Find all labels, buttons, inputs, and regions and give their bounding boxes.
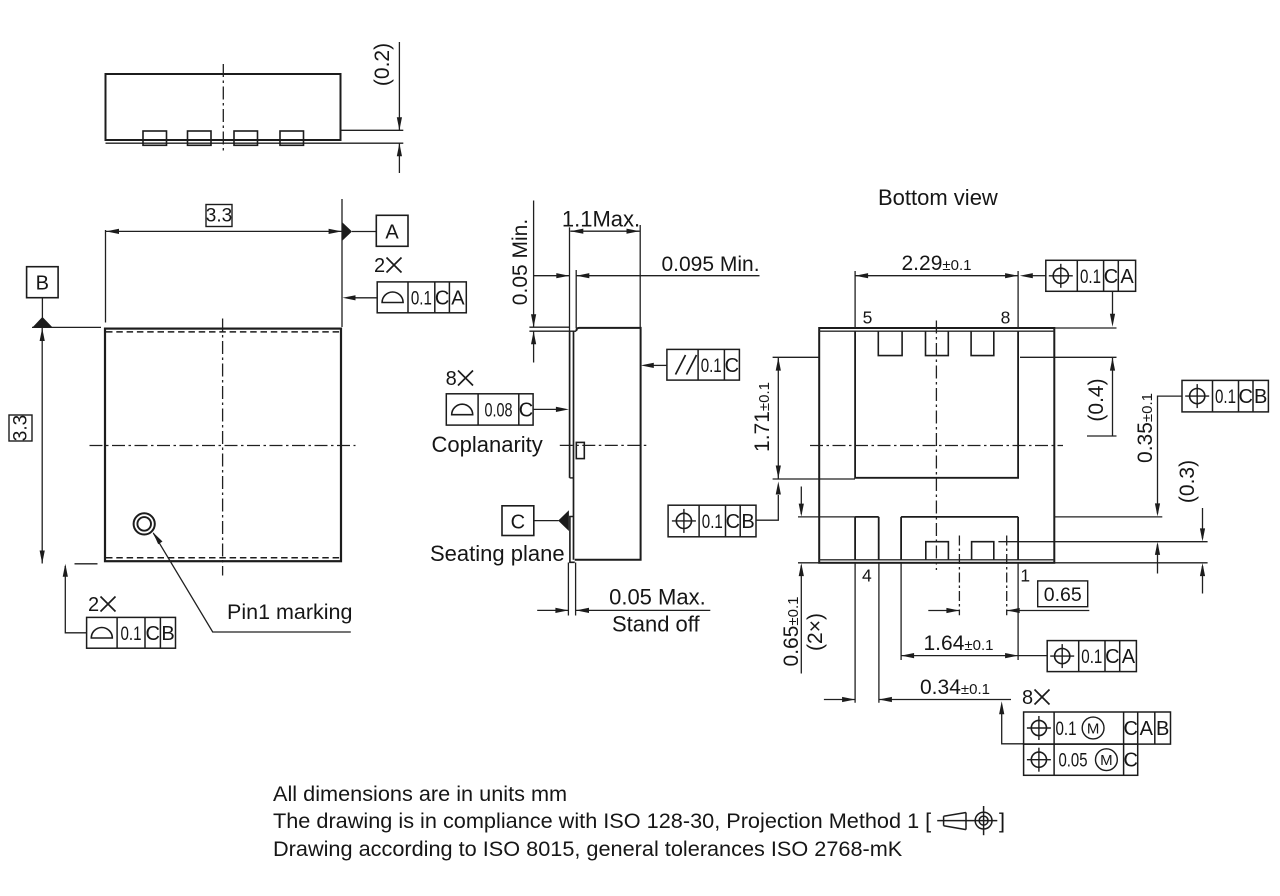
side view strip bottom tick bbox=[570, 477, 574, 479]
dim 0.35 lower arrow bbox=[1157, 545, 1159, 574]
dim 3.3 top: boxed value bbox=[206, 205, 232, 227]
pin1 marking circle outer bbox=[134, 513, 155, 534]
side view gate lead rect bbox=[576, 442, 584, 458]
dim 1.71: extension lines bbox=[773, 356, 819, 358]
svg-text:0.1: 0.1 bbox=[1080, 267, 1101, 288]
extension line body right up bbox=[639, 225, 641, 328]
front view lead 4 bbox=[280, 131, 304, 145]
leader from 8x frames up to 0.34 dim line bbox=[1002, 705, 1024, 744]
svg-text:(0.4): (0.4) bbox=[1085, 378, 1108, 421]
dim 3.3 left: bottom extension line bbox=[75, 563, 98, 565]
dim 3.3 top: right extension line bbox=[341, 199, 343, 327]
dim 1.64: extension lines bbox=[900, 563, 902, 660]
datum A triangle bbox=[343, 223, 353, 241]
svg-text:0.1: 0.1 bbox=[1215, 387, 1236, 408]
svg-text:Stand off: Stand off bbox=[612, 612, 701, 637]
front view vertical centerline bbox=[222, 64, 224, 152]
svg-text:Pin1 marking: Pin1 marking bbox=[227, 600, 352, 624]
svg-text:(0.3): (0.3) bbox=[1176, 460, 1199, 503]
pad top right extension bbox=[1054, 516, 1162, 518]
parallelism frame // 0.1 C bbox=[667, 349, 740, 380]
svg-text:8: 8 bbox=[446, 368, 457, 390]
front view package body bbox=[106, 74, 341, 140]
extension line lead face up bbox=[569, 227, 571, 331]
svg-text:C: C bbox=[145, 623, 159, 645]
position frame 0.1 C B (right) bbox=[1182, 380, 1268, 412]
svg-text:C: C bbox=[519, 400, 533, 422]
svg-text:1: 1 bbox=[1020, 566, 1030, 586]
svg-text:C: C bbox=[1123, 750, 1137, 772]
svg-text:0.1: 0.1 bbox=[411, 288, 432, 309]
feature control frame: profile 0.1 C A bbox=[377, 282, 466, 313]
dim 3.3 top: left extension line bbox=[105, 230, 107, 323]
svg-text:0.095 Min.: 0.095 Min. bbox=[661, 253, 759, 276]
extension line lead top right bbox=[341, 129, 404, 131]
side view body left edge bbox=[573, 331, 575, 560]
dimension (0.2) line lower bbox=[398, 143, 400, 173]
dim 3.3 left: top extension line bbox=[32, 326, 101, 328]
inner top line bbox=[819, 330, 1054, 332]
exposed pad outline bbox=[855, 331, 1018, 478]
svg-text:8: 8 bbox=[1022, 687, 1033, 709]
front view lead 1 bbox=[143, 131, 167, 145]
dim 1.71: dimension line bbox=[777, 358, 779, 479]
svg-text:C: C bbox=[435, 287, 449, 309]
svg-text:C: C bbox=[1238, 386, 1252, 408]
top view hidden edge bottom (dashed) bbox=[106, 557, 340, 559]
svg-text:C: C bbox=[511, 511, 525, 533]
feature control frame: profile 0.08 C bbox=[446, 394, 533, 425]
svg-text:B: B bbox=[36, 273, 49, 295]
svg-text:(2×): (2×) bbox=[804, 613, 827, 651]
front view seating line (lead bottom) bbox=[106, 142, 341, 144]
svg-text:0.05 Max.: 0.05 Max. bbox=[609, 585, 706, 610]
svg-text:A: A bbox=[1122, 646, 1136, 668]
side view body bbox=[575, 328, 641, 560]
svg-text:0.65: 0.65 bbox=[1044, 584, 1082, 606]
position frame 0.1 C A (bottom) bbox=[1047, 641, 1136, 672]
dim 1.64: dimension line bbox=[901, 655, 1047, 657]
svg-text:Drawing according to ISO 8015,: Drawing according to ISO 8015, general t… bbox=[273, 836, 903, 861]
svg-text:3.3: 3.3 bbox=[11, 415, 32, 441]
stand off dimension bbox=[537, 609, 568, 611]
svg-text:A: A bbox=[1140, 718, 1154, 740]
dim 1.1Max line bbox=[570, 230, 639, 232]
top edge right extension bbox=[1054, 327, 1116, 329]
svg-text:M: M bbox=[1087, 721, 1100, 738]
top notch 2 bbox=[926, 331, 949, 355]
leader from top 0.1CA frame left to dim line bbox=[1033, 275, 1046, 277]
svg-text:]: ] bbox=[999, 808, 1005, 833]
source pad notch 1 bbox=[926, 542, 949, 560]
source pad notch 2 bbox=[972, 542, 994, 560]
front view lead 3 bbox=[234, 131, 258, 145]
0.05 Min extension lines bbox=[529, 326, 569, 328]
datum C leader + triangle bbox=[534, 520, 559, 522]
position frame 0.1 C B (side view) bbox=[668, 505, 756, 537]
top view vertical centerline bbox=[222, 319, 224, 576]
svg-text:Bottom view: Bottom view bbox=[878, 185, 998, 210]
svg-text:0.1: 0.1 bbox=[1081, 647, 1102, 668]
top view hidden edge top (dashed) bbox=[106, 331, 340, 333]
leader from side 0.1CB frame up to pad bottom ext bbox=[756, 495, 778, 520]
svg-text:The drawing is in compliance w: The drawing is in compliance with ISO 12… bbox=[273, 808, 931, 833]
leader from 2x frame to right edge extension bbox=[355, 297, 377, 299]
bottom view vertical centerline bbox=[935, 321, 937, 571]
dim 0.095 Min bbox=[534, 275, 569, 277]
projection symbol cone bbox=[937, 806, 997, 835]
lead centerline pin1 bbox=[1006, 536, 1008, 616]
dim 0.05 Min vertical bbox=[533, 201, 535, 328]
datum C box bbox=[502, 506, 534, 536]
dim 0.65 (2x): arrows bbox=[800, 487, 802, 515]
position frame 0.1 C A (top) bbox=[1046, 260, 1136, 291]
svg-text:C: C bbox=[1105, 646, 1119, 668]
svg-text:4: 4 bbox=[862, 566, 872, 586]
dim 0.34: extension lines bbox=[854, 563, 856, 703]
extension line lead bottom right bbox=[341, 142, 404, 144]
leader from top 0.1CA frame down to top edge ext bbox=[1112, 291, 1114, 314]
svg-text:2: 2 bbox=[374, 255, 385, 277]
svg-text:C: C bbox=[726, 511, 740, 533]
side view bottom lead bbox=[570, 517, 575, 563]
svg-text:M: M bbox=[1100, 752, 1113, 769]
leader from // frame to body right edge bbox=[653, 364, 667, 366]
top notch 3 bbox=[971, 331, 994, 355]
side view lead strip outer face bbox=[569, 331, 571, 478]
svg-text:C: C bbox=[1123, 718, 1137, 740]
svg-text:0.05: 0.05 bbox=[1059, 751, 1088, 772]
dimension (0.2) line upper bbox=[398, 42, 400, 130]
dim 0.34: dimension line bbox=[824, 699, 855, 701]
dim (0.4) bbox=[1112, 358, 1114, 436]
extension line body left up bbox=[575, 270, 577, 328]
svg-text:B: B bbox=[161, 623, 174, 645]
pin1 leader line bbox=[153, 533, 350, 632]
leader from 0.08 frame to lead face bbox=[533, 408, 556, 410]
svg-text:0.05 Min.: 0.05 Min. bbox=[509, 219, 532, 305]
bottom edge right extension bbox=[1054, 562, 1207, 564]
datum B box bbox=[27, 267, 58, 298]
svg-text:0.1: 0.1 bbox=[1056, 719, 1077, 740]
svg-text:Seating plane: Seating plane bbox=[430, 541, 565, 566]
svg-text:B: B bbox=[1156, 718, 1169, 740]
stand off extension lines bbox=[567, 563, 569, 616]
dim 0.65 (2x) left: extension lines bbox=[798, 516, 855, 518]
svg-text:(0.2): (0.2) bbox=[371, 43, 394, 86]
svg-text:B: B bbox=[741, 511, 754, 533]
svg-text:Coplanarity: Coplanarity bbox=[432, 432, 543, 457]
notch top right extension bbox=[998, 541, 1207, 543]
bottom view outline bbox=[819, 328, 1054, 563]
svg-text:All dimensions are in units mm: All dimensions are in units mm bbox=[273, 781, 567, 806]
pin1 marking circle inner bbox=[137, 517, 151, 531]
dim (0.3) bbox=[1202, 508, 1204, 539]
inner bottom line bbox=[819, 559, 1054, 561]
svg-text:0.1: 0.1 bbox=[702, 512, 723, 533]
dim 0.65 boxed value bbox=[1038, 581, 1088, 607]
top notch 1 bbox=[878, 331, 902, 355]
side view horizontal centerline bbox=[560, 444, 649, 446]
svg-text:2: 2 bbox=[88, 594, 99, 616]
svg-text:3.3: 3.3 bbox=[206, 206, 232, 227]
position frame 0.1(M) CAB bbox=[1024, 712, 1171, 744]
side view strip top tick bbox=[570, 330, 577, 332]
svg-text:1.1Max.: 1.1Max. bbox=[562, 207, 640, 232]
datum A box bbox=[376, 215, 408, 246]
svg-text:0.08: 0.08 bbox=[485, 401, 513, 422]
svg-text:5: 5 bbox=[863, 308, 873, 328]
dim 3.3 top: dimension line bbox=[106, 230, 342, 232]
svg-text:C: C bbox=[1104, 266, 1118, 288]
lead centerline pin2 bbox=[958, 536, 960, 616]
svg-text:A: A bbox=[1120, 266, 1134, 288]
svg-text:8: 8 bbox=[1001, 308, 1011, 328]
dim 2.29: extension lines bbox=[854, 271, 856, 328]
dim 3.3 left: boxed value (rotated) bbox=[9, 415, 32, 441]
dim 0.65 pitch bbox=[928, 610, 959, 612]
dim 2.29: dimension line bbox=[855, 275, 1018, 277]
top view package outline bbox=[105, 329, 341, 562]
front view lead 2 bbox=[188, 131, 212, 145]
dim 3.3 left: dimension line bbox=[41, 328, 43, 564]
svg-text:0.1: 0.1 bbox=[121, 624, 142, 645]
pin4 pad bbox=[855, 516, 879, 518]
svg-text:C: C bbox=[725, 355, 739, 377]
position frame 0.05(M) C bbox=[1024, 744, 1138, 775]
source pad bbox=[901, 517, 1018, 560]
svg-text:0.1: 0.1 bbox=[701, 356, 722, 377]
svg-text:A: A bbox=[385, 221, 399, 243]
leader from right 0.1CB frame + dim 0.35 line bbox=[1158, 396, 1183, 513]
bottom view horizontal centerline bbox=[810, 445, 1063, 447]
top view horizontal centerline bbox=[90, 445, 356, 447]
lead tip bottom right extension bbox=[1020, 356, 1117, 358]
feature control frame: profile 0.1 C B bbox=[87, 617, 176, 648]
leader for bottom-left frame bbox=[65, 566, 86, 633]
datum B leader + triangle bbox=[41, 298, 43, 318]
svg-text:B: B bbox=[1254, 386, 1267, 408]
svg-text:A: A bbox=[451, 287, 465, 309]
